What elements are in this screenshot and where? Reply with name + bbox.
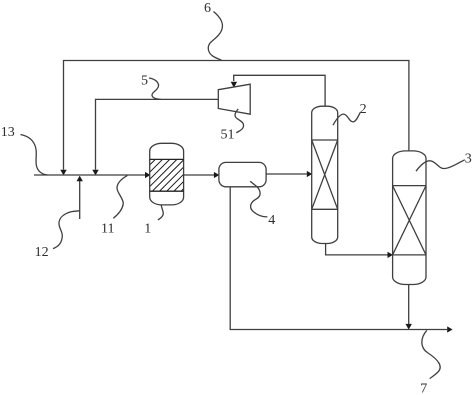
leader squiggle for 11 — [113, 175, 127, 218]
column 2 — [312, 106, 338, 243]
leader squiggle for 3 — [416, 160, 465, 171]
wire: feed line 13 — [34, 174, 145, 176]
arrow: column 3 bottoms onto product line — [406, 324, 412, 330]
wire: compressor discharge line 5 — [96, 99, 219, 169]
leader squiggle for 2 — [333, 113, 360, 126]
wire: column 3 bottoms down — [408, 285, 410, 325]
leader squiggle for 12 — [53, 211, 80, 249]
wire: product line 7 (vessel 4 bottoms across) — [230, 187, 447, 330]
leader squiggle for 4 — [250, 181, 267, 217]
leader squiggle for 5 — [149, 78, 161, 99]
arrow: line 6 into feed line — [60, 170, 66, 176]
svg-text:3: 3 — [465, 152, 472, 167]
arrow: stream 12 up into feed line — [77, 176, 83, 182]
leader squiggle for 6 — [208, 12, 222, 61]
arrow: into column 2 — [307, 171, 312, 177]
arrow: into vessel 4 — [214, 172, 219, 178]
svg-text:6: 6 — [204, 1, 211, 16]
column 3 — [393, 151, 426, 285]
leader squiggle for 13 — [21, 135, 48, 176]
arrow: into compressor top — [231, 82, 237, 88]
svg-text:4: 4 — [268, 213, 275, 228]
leader squiggle for 1 — [158, 205, 163, 220]
svg-text:12: 12 — [35, 245, 49, 260]
column 3 packing X — [393, 186, 426, 255]
svg-text:7: 7 — [420, 381, 427, 395]
arrow: line 5 into feed line — [92, 170, 98, 176]
reactor 1 catalyst bed hatch — [130, 136, 215, 221]
wire: column 2 bottoms to column 3 — [326, 244, 388, 255]
svg-text:11: 11 — [101, 222, 114, 237]
column 2 packing X — [312, 140, 338, 209]
compressor 5 — [218, 84, 250, 114]
arrow: feed into reactor 1 — [145, 172, 150, 178]
wire: recycle line 6 (top of column 3 up, across top, down to feed line) — [64, 61, 409, 170]
svg-text:51: 51 — [221, 128, 235, 143]
svg-text:1: 1 — [144, 222, 151, 237]
wire: reactor outlet to vessel 4 — [184, 174, 214, 176]
svg-text:5: 5 — [141, 74, 148, 89]
reactor 1 — [150, 143, 184, 205]
wire: vessel 4 outlet to column 2 — [266, 173, 307, 175]
wire: column 2 overhead to compressor — [234, 75, 325, 106]
svg-text:2: 2 — [360, 102, 367, 117]
arrow: into column 3 — [388, 252, 393, 258]
leader squiggle for 7 — [422, 330, 440, 378]
leader squiggle for 51 — [235, 109, 244, 133]
reactor 1 bed boundary lines — [150, 159, 184, 191]
wire: stream 12 — [79, 181, 81, 219]
svg-text:13: 13 — [1, 125, 15, 140]
vessel 4 — [219, 162, 266, 186]
arrow: product line outlet — [447, 326, 452, 332]
